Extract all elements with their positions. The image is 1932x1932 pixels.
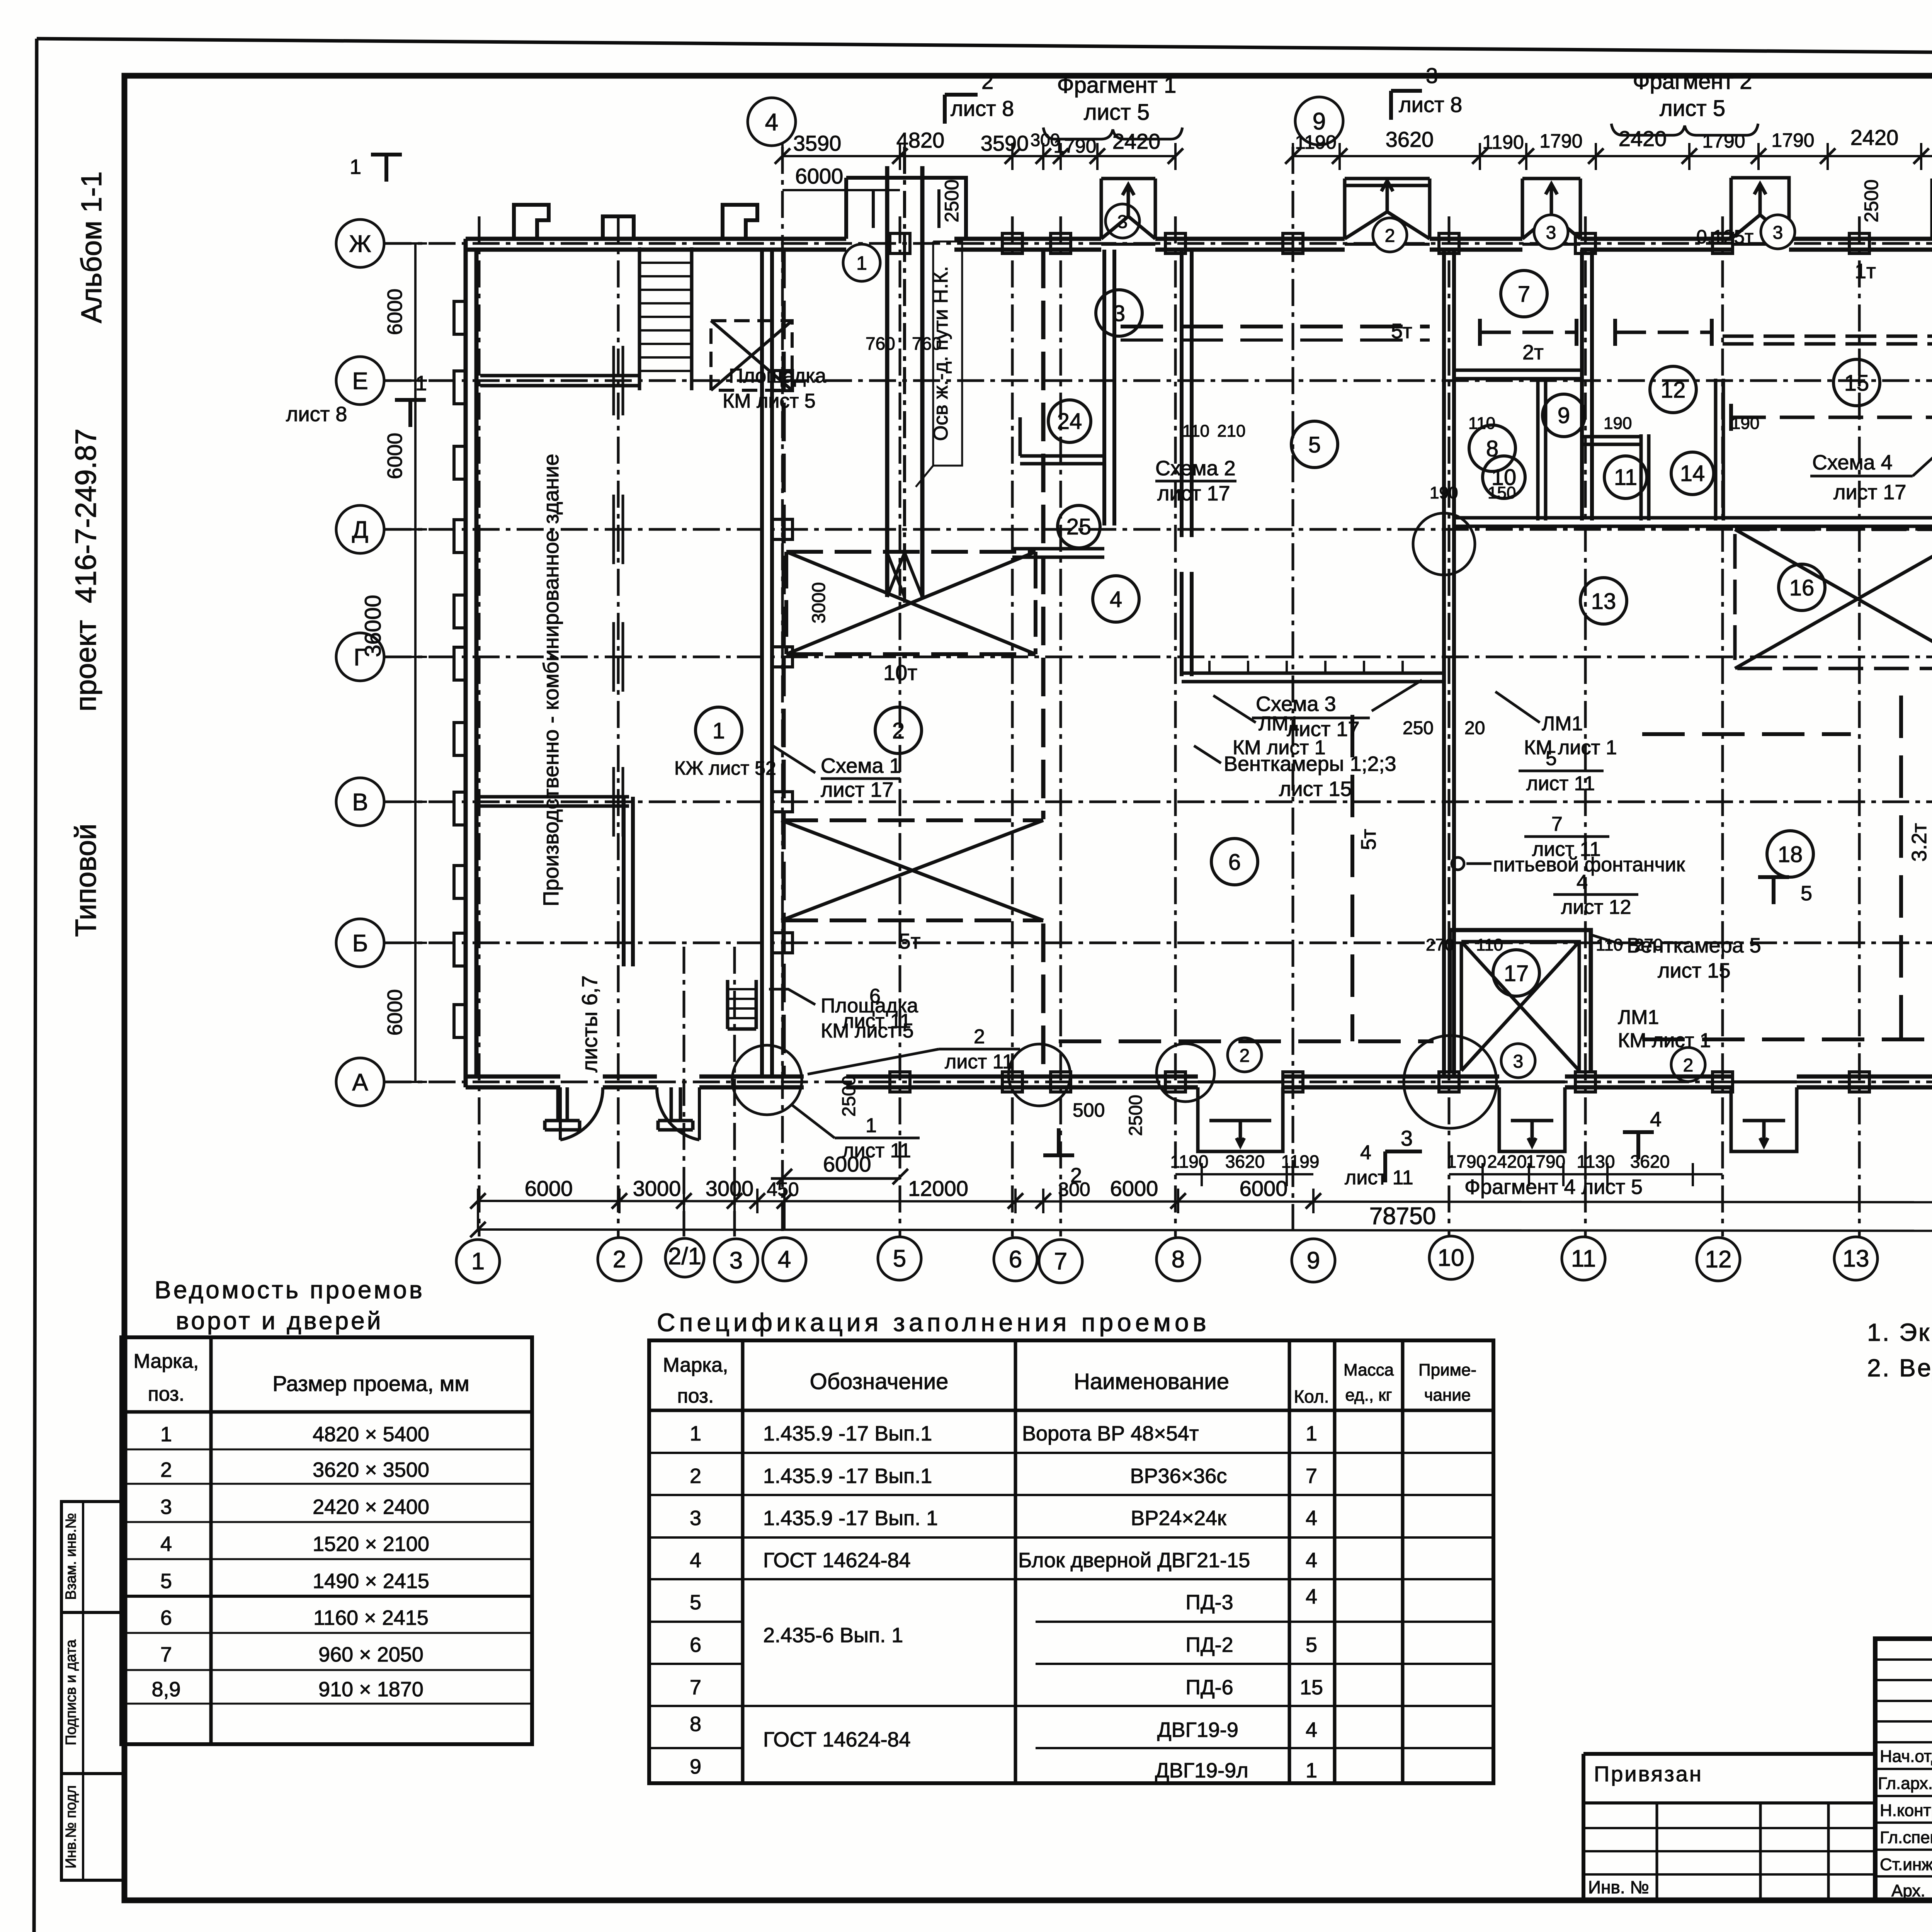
svg-text:2500: 2500	[941, 179, 963, 222]
svg-text:2500: 2500	[1126, 1095, 1146, 1136]
svg-text:1199: 1199	[1281, 1151, 1320, 1172]
svg-text:6000: 6000	[1240, 1176, 1288, 1201]
room 15	[1833, 359, 1880, 406]
wall x4107	[1582, 250, 1592, 520]
svg-text:КМ лист 1: КМ лист 1	[1233, 736, 1326, 759]
svg-text:190: 190	[1731, 414, 1759, 433]
svg-text:4: 4	[160, 1532, 172, 1556]
svg-text:ПД-6: ПД-6	[1185, 1676, 1233, 1699]
opening mark 2 bottom wall a	[1228, 1038, 1262, 1072]
svg-text:Наименование: Наименование	[1074, 1369, 1229, 1394]
svg-text:10т: 10т	[883, 660, 917, 685]
svg-text:7: 7	[1306, 1464, 1317, 1488]
svg-text:10: 10	[1438, 1245, 1464, 1271]
room 13	[1580, 578, 1627, 624]
svg-text:6: 6	[1228, 850, 1241, 875]
svg-text:ДВГ19-9л: ДВГ19-9л	[1155, 1759, 1248, 1782]
svg-text:1: 1	[1306, 1422, 1317, 1445]
axis Б	[384, 942, 1932, 944]
room5 ruler hatch on bottom wall	[1209, 661, 1403, 673]
svg-text:760: 760	[912, 333, 942, 354]
svg-text:лист 17: лист 17	[821, 778, 893, 801]
svg-text:Схема 4: Схема 4	[1812, 451, 1893, 474]
svg-text:1160 × 2415: 1160 × 2415	[313, 1606, 429, 1629]
svg-text:Приме-: Приме-	[1418, 1361, 1476, 1379]
svg-text:7: 7	[1054, 1248, 1067, 1275]
gate opening rect grid 9-10 top	[1345, 184, 1430, 187]
opening mark 3 bottom wall	[1501, 1044, 1535, 1078]
svg-text:6: 6	[1009, 1246, 1022, 1273]
svg-text:1: 1	[856, 252, 867, 274]
svg-text:7: 7	[1518, 282, 1530, 307]
axis А	[384, 1081, 1932, 1083]
svg-text:Н.контр: Н.контр	[1880, 1801, 1932, 1820]
svg-text:Арх.: Арх.	[1891, 1881, 1925, 1900]
upper stair	[639, 247, 692, 390]
svg-text:78750: 78750	[1369, 1203, 1436, 1230]
svg-text:1130: 1130	[1577, 1151, 1615, 1172]
svg-text:2: 2	[892, 718, 905, 743]
bottom small dim chain 8..9	[1175, 1173, 1313, 1175]
axis 1	[478, 216, 481, 1236]
section mark 1 left	[371, 155, 402, 182]
room 12	[1650, 366, 1696, 413]
svg-text:2: 2	[613, 1246, 626, 1273]
svg-text:3: 3	[1401, 1126, 1413, 1150]
room 4	[1093, 576, 1139, 622]
monorail dash room18 horizontal	[1642, 1037, 1932, 1041]
svg-text:Площадка: Площадка	[729, 365, 826, 387]
svg-text:15: 15	[1844, 371, 1869, 396]
svg-text:6000: 6000	[383, 433, 406, 479]
svg-text:1: 1	[160, 1423, 172, 1446]
svg-text:3620 × 3500: 3620 × 3500	[313, 1458, 429, 1481]
axis 4	[781, 147, 784, 1236]
room 9	[1543, 394, 1585, 437]
left wall pilasters	[454, 301, 466, 1037]
svg-text:5т: 5т	[899, 929, 921, 953]
svg-text:1190: 1190	[1482, 131, 1524, 153]
svg-text:14: 14	[1680, 461, 1705, 486]
svg-text:2т: 2т	[1522, 341, 1544, 364]
svg-text:150: 150	[1488, 483, 1516, 502]
svg-text:ворот и дверей: ворот и дверей	[176, 1307, 383, 1335]
opening mark 2 top wall	[1373, 218, 1407, 252]
svg-text:ПД-2: ПД-2	[1185, 1633, 1233, 1656]
svg-text:ДВГ19-9: ДВГ19-9	[1157, 1718, 1238, 1742]
svg-text:2. Ведомость перемычек см: 2. Ведомость перемычек см. на листе 3.	[1867, 1354, 1932, 1382]
room 18	[1767, 831, 1813, 877]
svg-text:110: 110	[1596, 935, 1623, 954]
privyazan block	[1583, 1754, 1875, 1900]
svg-text:Взам. инв.№: Взам. инв.№	[63, 1513, 79, 1600]
svg-text:КМ лист 1: КМ лист 1	[1618, 1029, 1711, 1052]
svg-text:Подписв и дата: Подписв и дата	[63, 1639, 79, 1745]
svg-text:Ж: Ж	[349, 231, 371, 257]
svg-text:1т: 1т	[1855, 260, 1876, 283]
drinking fountain	[1452, 857, 1464, 870]
svg-text:910 × 1870: 910 × 1870	[318, 1678, 423, 1701]
axis 9	[1292, 147, 1294, 1236]
room5 bottom wall y1750	[1182, 673, 1444, 682]
svg-text:13: 13	[1843, 1245, 1869, 1272]
room 2/4 divider dashes	[1041, 250, 1046, 1077]
svg-text:1790: 1790	[1526, 1151, 1565, 1172]
corridor bottom wall y1347	[1454, 518, 1932, 526]
svg-text:лист 11: лист 11	[1345, 1167, 1413, 1189]
detail circle node 4-A	[732, 1045, 802, 1115]
svg-text:лист 11: лист 11	[842, 1010, 911, 1032]
svg-text:4: 4	[778, 1246, 791, 1273]
svg-text:4: 4	[1306, 1718, 1317, 1742]
room 5	[1291, 421, 1338, 468]
annex room1 box	[624, 797, 633, 966]
svg-text:А: А	[352, 1069, 368, 1096]
top wall window header rects	[1101, 179, 1155, 239]
svg-text:3: 3	[160, 1495, 172, 1519]
svg-text:3000: 3000	[633, 1176, 681, 1201]
svg-text:Спецификация заполнения прое: Спецификация заполнения проемов	[657, 1308, 1210, 1337]
sheet outer border	[37, 39, 1932, 58]
room 7	[1501, 270, 1547, 317]
annex upper cross box	[786, 552, 1036, 654]
svg-text:Привязан: Привязан	[1594, 1762, 1703, 1786]
axis 8	[1174, 216, 1177, 1236]
svg-text:4: 4	[1306, 1507, 1317, 1530]
svg-text:Ведомость проемов: Ведомость проемов	[155, 1276, 425, 1304]
svg-text:ПД-3: ПД-3	[1185, 1591, 1233, 1614]
top wall window sills	[1101, 243, 1932, 246]
svg-text:Гл.арх.пр: Гл.арх.пр	[1878, 1774, 1932, 1793]
svg-text:1: 1	[471, 1248, 485, 1275]
room 11	[1604, 456, 1647, 498]
room 24/25 partitions	[1020, 417, 1104, 464]
gate flap marks on top wall	[1101, 185, 1155, 239]
room 10	[1483, 456, 1525, 498]
svg-text:Обозначение: Обозначение	[810, 1369, 949, 1394]
svg-text:36000: 36000	[361, 595, 386, 657]
svg-text:1: 1	[690, 1422, 701, 1445]
svg-text:110: 110	[1476, 935, 1503, 954]
svg-text:7: 7	[690, 1676, 701, 1699]
opening mark 3 top wall a	[1105, 204, 1139, 238]
svg-text:500: 500	[1073, 1099, 1105, 1121]
svg-text:5: 5	[160, 1570, 172, 1593]
svg-text:Фрагмент 4 лист 5: Фрагмент 4 лист 5	[1464, 1175, 1643, 1199]
top dim ticks 4..8	[775, 148, 1183, 164]
svg-text:6000: 6000	[383, 989, 406, 1036]
svg-text:2420 × 2400: 2420 × 2400	[313, 1495, 429, 1519]
svg-text:960 × 2050: 960 × 2050	[318, 1643, 423, 1666]
svg-text:5: 5	[893, 1245, 906, 1272]
svg-text:2420: 2420	[1112, 129, 1161, 153]
svg-text:5: 5	[690, 1591, 701, 1614]
svg-text:лист 17: лист 17	[1157, 482, 1230, 505]
svg-text:6000: 6000	[823, 1152, 871, 1176]
room 2	[875, 707, 922, 753]
room 6	[1211, 838, 1258, 885]
svg-text:поз.: поз.	[148, 1383, 185, 1405]
svg-text:760: 760	[866, 333, 895, 354]
svg-text:1: 1	[350, 155, 361, 179]
svg-text:4820 × 5400: 4820 × 5400	[313, 1423, 429, 1446]
svg-text:9: 9	[1313, 108, 1326, 135]
partition y964 rooms 7/8	[1454, 370, 1582, 379]
svg-text:5: 5	[1308, 432, 1321, 457]
svg-text:Размер проема, мм: Размер проема, мм	[272, 1371, 469, 1396]
svg-text:Ст.инж: Ст.инж	[1880, 1855, 1932, 1874]
svg-text:2: 2	[690, 1464, 701, 1488]
svg-text:ГОСТ 14624-84: ГОСТ 14624-84	[763, 1549, 911, 1572]
small partitions rooms 9/10/11	[1538, 379, 1546, 520]
svg-text:0.125т: 0.125т	[1696, 226, 1753, 248]
axis 12	[1721, 216, 1724, 1236]
room 16	[1779, 564, 1825, 611]
svg-text:чание: чание	[1424, 1386, 1471, 1405]
svg-text:Ворота ВР 48×54т: Ворота ВР 48×54т	[1022, 1422, 1199, 1445]
svg-text:ед., кг: ед., кг	[1345, 1386, 1392, 1405]
title block outer	[1875, 1639, 1932, 1900]
svg-text:6000: 6000	[525, 1176, 573, 1201]
svg-text:7: 7	[160, 1643, 172, 1666]
svg-text:4: 4	[1306, 1585, 1317, 1608]
top dim line grids 9..16	[1293, 155, 1932, 157]
bottom wall А double line with openings	[466, 1075, 1932, 1079]
svg-text:3620: 3620	[1225, 1151, 1265, 1172]
svg-text:3: 3	[1113, 301, 1125, 326]
monorail dash room6 vertical	[1350, 715, 1354, 1041]
svg-text:лист 15: лист 15	[1658, 959, 1730, 982]
monorail dash room18 vertical	[1899, 696, 1903, 1049]
wall x3070 room5 left	[1182, 250, 1192, 676]
svg-text:Схема 3: Схема 3	[1256, 692, 1336, 716]
svg-text:лист 17: лист 17	[1833, 481, 1906, 504]
svg-text:11: 11	[1614, 465, 1637, 490]
monorail dash rooms 7 area	[1480, 331, 1577, 334]
svg-text:1: 1	[1306, 1759, 1317, 1782]
svg-text:3620: 3620	[1630, 1151, 1670, 1172]
svg-text:4: 4	[765, 109, 778, 136]
axis 11	[1584, 216, 1587, 1236]
axis Д	[384, 528, 1932, 531]
left wall double line	[466, 239, 476, 1087]
monorail dash room5	[1121, 325, 1430, 328]
corridor walls x3740	[1444, 250, 1454, 1077]
room 1	[696, 707, 742, 753]
axis 7	[1060, 216, 1062, 1236]
room 14	[1671, 452, 1714, 495]
svg-text:13: 13	[1591, 589, 1616, 614]
svg-text:ЛМ1: ЛМ1	[1542, 713, 1583, 735]
svg-text:6000: 6000	[795, 164, 844, 188]
svg-text:5: 5	[1546, 747, 1557, 770]
opening mark 2 bottom wall b	[1671, 1048, 1705, 1082]
svg-text:лист 5: лист 5	[1084, 100, 1150, 125]
section mark 2 bottom	[1043, 1128, 1074, 1155]
svg-text:лист 5: лист 5	[1660, 96, 1725, 121]
svg-text:3: 3	[1546, 223, 1556, 243]
svg-text:3000: 3000	[809, 582, 829, 624]
svg-text:6: 6	[690, 1633, 701, 1656]
axis 13	[1858, 216, 1861, 1236]
svg-text:4: 4	[1577, 871, 1588, 893]
svg-text:17: 17	[1504, 961, 1529, 986]
svg-text:3590: 3590	[981, 131, 1029, 155]
svg-text:1190: 1190	[1295, 131, 1337, 153]
svg-text:4: 4	[1650, 1108, 1662, 1131]
monorail dash room18 top	[1642, 732, 1851, 736]
svg-text:6000: 6000	[383, 289, 406, 335]
axis 10	[1448, 216, 1451, 1236]
axis 5	[899, 216, 901, 1236]
svg-text:4: 4	[1110, 587, 1122, 612]
svg-text:6: 6	[160, 1606, 172, 1629]
bottom small dim chain 10..11	[1449, 1173, 1723, 1175]
svg-text:2420: 2420	[1850, 125, 1899, 150]
opening mark 1 top wall	[843, 244, 880, 281]
gate 1 leaf rectangle above wall	[846, 178, 966, 239]
svg-text:2500: 2500	[1861, 179, 1882, 222]
svg-text:ГОСТ 14624-84: ГОСТ 14624-84	[763, 1728, 911, 1751]
svg-text:16: 16	[1789, 575, 1815, 600]
svg-text:2: 2	[1240, 1046, 1250, 1066]
svg-text:9: 9	[690, 1755, 701, 1778]
svg-text:1: 1	[713, 718, 725, 743]
room17 box	[1450, 930, 1591, 1071]
svg-text:2420: 2420	[1487, 1151, 1527, 1172]
svg-text:Фрагмент 1: Фрагмент 1	[1057, 73, 1177, 98]
left table: Vedomost proemov frame	[121, 1337, 532, 1744]
svg-text:5т: 5т	[1391, 320, 1412, 343]
svg-text:1190: 1190	[1170, 1151, 1209, 1172]
svg-text:ЛМ1: ЛМ1	[1259, 713, 1299, 735]
svg-text:3: 3	[1426, 63, 1438, 88]
svg-text:1.435.9 -17 Вып. 1: 1.435.9 -17 Вып. 1	[763, 1507, 938, 1530]
room 3	[1096, 290, 1142, 336]
top dim line grids 4..8	[782, 155, 1175, 157]
svg-text:20: 20	[1464, 718, 1485, 738]
svg-text:110: 110	[1468, 414, 1495, 433]
left letter bubbles	[336, 219, 384, 267]
svg-text:2420: 2420	[1619, 126, 1667, 151]
svg-text:ВР36×36с: ВР36×36с	[1130, 1464, 1227, 1488]
svg-text:поз.: поз.	[677, 1385, 714, 1407]
signature label rows	[1875, 1768, 1932, 1770]
detail circle node G-10	[1413, 513, 1475, 575]
svg-text:416-7-249.87: 416-7-249.87	[70, 429, 102, 603]
svg-text:1490 × 2415: 1490 × 2415	[313, 1570, 429, 1593]
svg-text:8: 8	[690, 1713, 701, 1736]
room16 cross box	[1735, 529, 1932, 668]
bottom dim 78750 line	[478, 1230, 1932, 1231]
svg-text:1790: 1790	[1702, 130, 1745, 152]
svg-text:Производственно - комбинирован: Производственно - комбинированное здание	[539, 454, 563, 906]
svg-text:3620: 3620	[1386, 127, 1434, 151]
svg-text:КЖ лист 52: КЖ лист 52	[674, 757, 776, 779]
svg-text:5: 5	[1306, 1633, 1317, 1656]
svg-text:Типовой: Типовой	[70, 823, 102, 937]
svg-text:Марка,: Марка,	[134, 1350, 199, 1372]
svg-text:2: 2	[981, 69, 993, 94]
svg-text:КМ лист 1: КМ лист 1	[1524, 736, 1617, 759]
svg-text:3000: 3000	[706, 1176, 754, 1201]
railway axis	[887, 166, 922, 597]
svg-text:9: 9	[1307, 1247, 1320, 1274]
svg-text:лист 8: лист 8	[951, 96, 1014, 121]
svg-text:Блок дверной ДВГ21-15: Блок дверной ДВГ21-15	[1018, 1549, 1250, 1572]
wall x2870 upper	[1104, 250, 1114, 526]
svg-text:15: 15	[1300, 1676, 1323, 1699]
axis Г	[384, 656, 1932, 658]
svg-text:1520 × 2100: 1520 × 2100	[313, 1532, 429, 1556]
svg-text:1: 1	[415, 372, 427, 395]
left margin small boxes (Vzam inv / Podpis i data / Inv N podl)	[61, 1502, 124, 1612]
svg-text:450: 450	[767, 1179, 799, 1200]
svg-text:24: 24	[1057, 409, 1082, 434]
svg-text:3590: 3590	[793, 131, 842, 155]
svg-text:190: 190	[1430, 483, 1458, 502]
svg-text:лист 15: лист 15	[1279, 777, 1352, 801]
svg-text:Схема 1: Схема 1	[821, 754, 901, 777]
svg-text:6000: 6000	[1110, 1176, 1158, 1201]
svg-text:9: 9	[1558, 403, 1570, 428]
section mark 4 bottom	[1623, 1132, 1654, 1159]
bottom number bubbles	[456, 1240, 500, 1283]
svg-text:Б: Б	[352, 930, 368, 957]
svg-text:3: 3	[730, 1247, 743, 1274]
svg-text:210: 210	[1217, 422, 1245, 440]
svg-text:лист 11: лист 11	[945, 1051, 1014, 1073]
svg-text:лист 11: лист 11	[1526, 772, 1595, 795]
svg-text:2: 2	[974, 1026, 985, 1048]
svg-text:3.2т: 3.2т	[1908, 823, 1931, 862]
svg-text:лист 8: лист 8	[286, 403, 347, 426]
svg-text:лист 8: лист 8	[1399, 92, 1462, 117]
svg-text:11: 11	[1571, 1245, 1596, 1272]
top bubble 4	[748, 98, 796, 146]
svg-text:3: 3	[1773, 223, 1783, 243]
svg-text:2: 2	[1683, 1055, 1694, 1076]
axis 2/1	[683, 947, 685, 1236]
monorail dash room6 horizontal	[1059, 1039, 1434, 1043]
annex lower cross box	[781, 820, 1043, 920]
svg-text:4: 4	[1306, 1549, 1317, 1572]
axis В	[384, 801, 1932, 803]
svg-text:1.435.9 -17 Вып.1: 1.435.9 -17 Вып.1	[763, 1422, 932, 1445]
svg-text:1.435.9 -17 Вып.1: 1.435.9 -17 Вып.1	[763, 1464, 932, 1488]
svg-text:270: 270	[1426, 935, 1454, 954]
svg-text:Е: Е	[352, 368, 368, 395]
center table: Specifikaciya frame	[649, 1340, 1493, 1783]
room 17	[1493, 950, 1539, 996]
top wall Ж double line with openings	[466, 237, 1932, 241]
svg-text:2: 2	[160, 1458, 172, 1481]
svg-text:2/1: 2/1	[668, 1243, 701, 1270]
annex-main divider wall grid4	[762, 250, 772, 1077]
gate opening rect grid 12-13 top	[1731, 178, 1789, 239]
lower stair	[728, 980, 756, 1029]
svg-text:Нач.отд: Нач.отд	[1880, 1747, 1932, 1766]
opening mark 3 top wall b	[1534, 215, 1568, 249]
svg-text:4: 4	[690, 1549, 701, 1572]
svg-text:Фрагмент 2: Фрагмент 2	[1633, 69, 1752, 94]
opening mark 3 top wall c	[1761, 215, 1795, 249]
svg-text:8: 8	[1172, 1246, 1185, 1273]
section mark 5 mid	[1758, 877, 1789, 904]
svg-text:Д: Д	[352, 517, 368, 543]
svg-text:КМ лист 5: КМ лист 5	[723, 390, 816, 412]
svg-text:8,9: 8,9	[151, 1678, 180, 1701]
